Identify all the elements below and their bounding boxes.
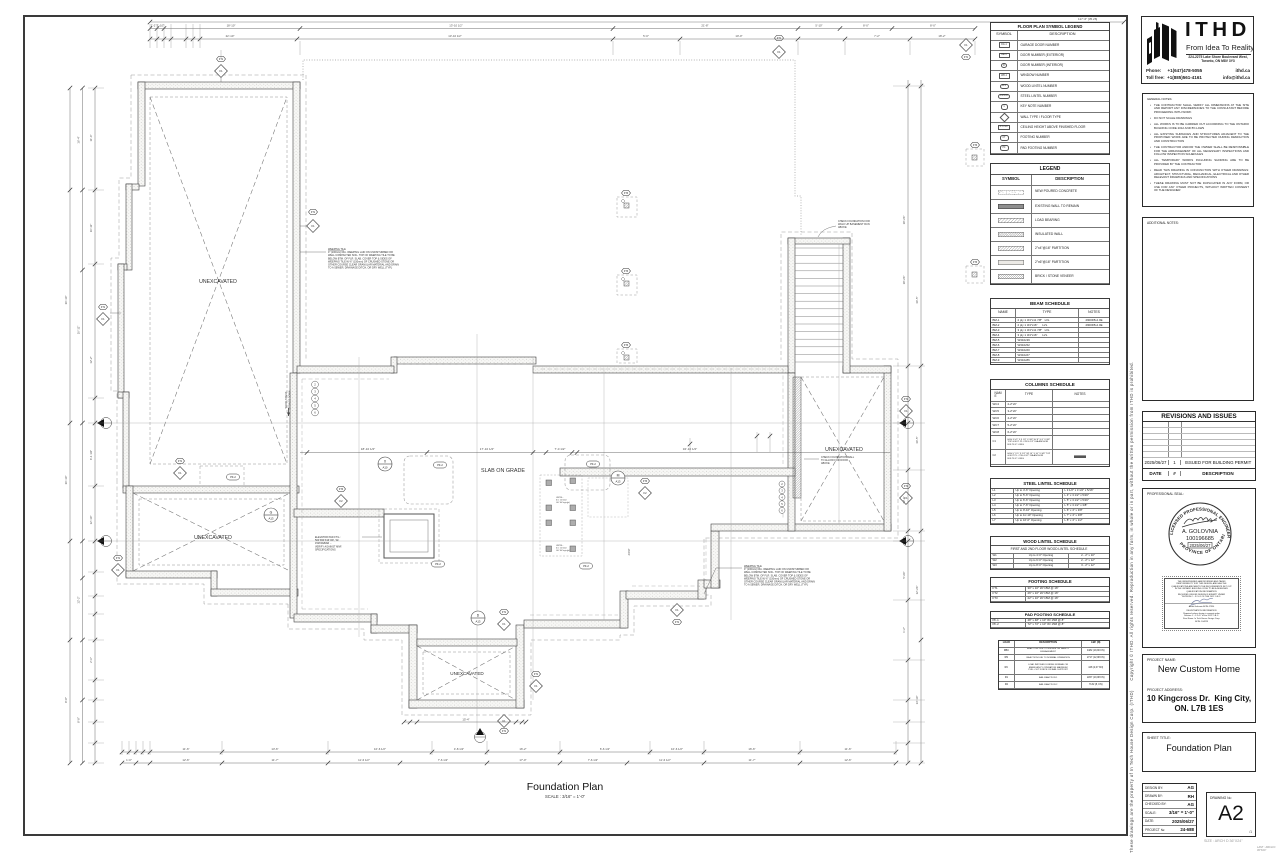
wall: step x704 xyxy=(698,580,706,599)
wing inner X xyxy=(139,499,284,565)
wall: garage left step1 xyxy=(126,184,139,190)
wall: stair top wall xyxy=(788,238,850,244)
revisions and issues box xyxy=(1142,411,1256,481)
additional notes box xyxy=(1142,217,1254,401)
certificate box xyxy=(1162,576,1241,631)
general notes box xyxy=(1142,93,1254,207)
interior dim line y452 xyxy=(300,452,890,454)
left platform dashed xyxy=(200,466,244,486)
svg-text:A. GOLOVNIA: A. GOLOVNIA xyxy=(1182,529,1218,535)
professional seal box xyxy=(1142,488,1256,648)
svg-text:100196685: 100196685 xyxy=(1186,536,1214,542)
table: floor plan symbol legend xyxy=(990,22,1110,155)
wall: wing bottom2 xyxy=(211,589,298,596)
table: steel lintel schedule xyxy=(990,478,1110,525)
size label xyxy=(1204,839,1243,843)
table: legend xyxy=(990,163,1110,285)
wall: garage left mid xyxy=(126,184,132,270)
wall: house bottom band2 xyxy=(371,625,417,633)
wall: house top right xyxy=(533,366,788,373)
sheet title box xyxy=(1142,732,1256,772)
wall: stair left wall xyxy=(788,238,795,373)
section markers xyxy=(378,457,392,471)
wire: footing dashed outline xyxy=(131,74,306,76)
wall: garage left step2 xyxy=(118,264,127,270)
keynote circles left xyxy=(312,381,319,388)
rounded dashed pad left xyxy=(404,456,453,504)
wall: interior bearing left xyxy=(294,509,384,517)
logo box ITHD xyxy=(1141,16,1254,84)
wall: house bottom band1 xyxy=(294,614,377,622)
wall: house bottom band4 xyxy=(626,591,704,599)
garage inner dashed + X xyxy=(150,97,287,464)
wall: wing bottom xyxy=(126,571,217,578)
wall: step x377 xyxy=(371,614,377,633)
bottom tiny text xyxy=(1257,846,1280,852)
table: beam schedule xyxy=(990,298,1110,365)
wall: porch right xyxy=(516,625,524,708)
wall: porch bottom xyxy=(409,700,524,708)
seal circle xyxy=(1169,503,1231,565)
svg-text:2025/06/27: 2025/06/27 xyxy=(1190,543,1212,548)
wall: house left lower xyxy=(290,373,297,618)
wall: step x394 xyxy=(391,357,397,373)
grid vertical lines xyxy=(358,357,360,637)
post cluster 1 xyxy=(546,480,552,486)
bottom dimension lines xyxy=(122,751,896,753)
table: wood lintel schedule xyxy=(990,536,1110,570)
table: footing schedule xyxy=(990,577,1110,603)
drawing number box xyxy=(1206,792,1256,837)
wall: stair hatched wall xyxy=(793,377,801,498)
rounded dashed pad right xyxy=(565,455,610,490)
top dimension lines xyxy=(150,21,1124,23)
wire: deck dotted outline xyxy=(303,60,801,236)
pad ovals bottom xyxy=(432,561,445,567)
logo building icon xyxy=(1147,36,1152,65)
wall: garage left upper xyxy=(138,82,145,186)
porch inner X xyxy=(423,652,510,694)
table: pad footing schedule xyxy=(990,611,1110,629)
wall: stair right wall xyxy=(843,238,850,373)
wall: right garage bottom xyxy=(711,524,891,531)
stairs treads xyxy=(795,247,843,249)
wall: step x716 vert xyxy=(711,531,719,588)
wall: house/garage divider xyxy=(788,373,795,531)
right dimension lines xyxy=(907,80,909,763)
wall: wing left xyxy=(126,486,133,577)
wall: garage right / house left upper xyxy=(293,82,300,373)
info table xyxy=(1142,783,1197,837)
table: columns schedule xyxy=(990,379,1110,467)
post cluster 2 xyxy=(546,520,552,526)
deck pad footings xyxy=(617,197,637,217)
wall: wing step vert xyxy=(211,571,217,596)
keynote circles right xyxy=(779,481,785,487)
wall: wing left upper xyxy=(123,392,129,488)
table: elevator load table xyxy=(998,640,1110,690)
leaders xyxy=(220,77,222,82)
wall: interior bearing right xyxy=(560,468,795,476)
grid line horizontal A xyxy=(100,422,910,424)
wall: garage left lower xyxy=(118,264,124,398)
wall: house bottom band5 xyxy=(704,580,720,588)
wall: right garage top xyxy=(843,366,891,373)
elevator pit xyxy=(384,514,434,558)
wall: right garage right xyxy=(884,366,891,531)
seal signature xyxy=(1182,518,1217,528)
wall: wing top xyxy=(123,486,299,493)
left dimension lines xyxy=(69,88,71,763)
wall: garage left step3 xyxy=(118,392,129,398)
wall: porch left xyxy=(409,625,417,708)
wall: house bottom band3 xyxy=(524,620,626,628)
wall: house top left xyxy=(297,366,394,373)
right garage inner X xyxy=(801,377,884,521)
wall: house top mid xyxy=(394,357,536,364)
project name box xyxy=(1142,654,1256,723)
wall: garage top xyxy=(138,82,300,89)
FT/F symbol pairs xyxy=(217,57,226,62)
inner dashed main house xyxy=(302,369,783,609)
vertical copyright text xyxy=(1129,223,1134,853)
wall: porch top interior xyxy=(417,639,517,646)
interior mini dims xyxy=(756,432,758,452)
wall: step x626 xyxy=(620,591,628,628)
